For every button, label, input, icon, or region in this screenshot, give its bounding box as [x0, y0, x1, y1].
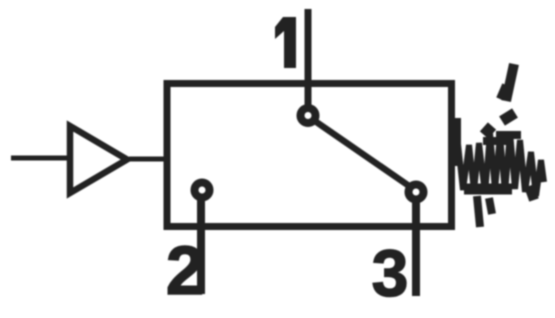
scribble top band [483, 137, 512, 145]
pin 1 contact [301, 108, 316, 123]
svg-text:2: 2 [166, 232, 204, 309]
pin label 1 [275, 17, 296, 68]
wire pin 3 [412, 200, 420, 296]
wire top pin 1 [305, 9, 312, 108]
scribble arrow tail b [484, 126, 492, 135]
scribble arrow shaft [506, 64, 514, 101]
scribble arrow barb [500, 85, 506, 99]
switch arm [312, 119, 412, 188]
svg-text:3: 3 [372, 236, 409, 310]
scribble top blob [496, 131, 521, 139]
scribble zigzag mass [458, 132, 544, 196]
switch body S1 [167, 84, 452, 227]
pin 3 contact [409, 185, 424, 200]
scribble bottom band [464, 184, 512, 195]
wire buffer output [129, 157, 166, 162]
pin 2 contact [195, 183, 210, 198]
scribble descender b [489, 198, 492, 214]
wire pin 2 [197, 198, 205, 294]
scribble arrow tail a [502, 113, 515, 121]
scribble bump on box edge [451, 118, 461, 166]
scribble descender a [477, 196, 480, 227]
wire input [11, 156, 68, 161]
scribble right descender [529, 186, 534, 200]
buffer U1 [70, 126, 127, 193]
